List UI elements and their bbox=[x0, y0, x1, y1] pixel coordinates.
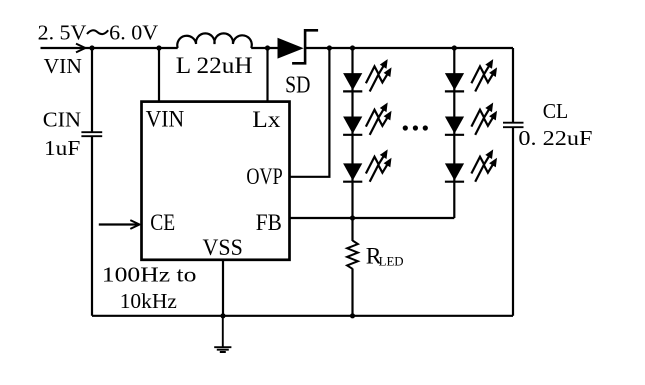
svg-text:2. 5V: 2. 5V bbox=[38, 21, 87, 45]
arrow CE pin bbox=[99, 223, 139, 225]
node dot LED col2 top bbox=[452, 45, 457, 50]
wire LED column 1 bbox=[351, 48, 353, 241]
node dot VIN junction bbox=[89, 45, 94, 50]
wire VSS riser bbox=[222, 259, 224, 316]
wire LED column 2 bbox=[453, 48, 455, 218]
arrowhead input VIN bbox=[76, 44, 85, 53]
ground bbox=[214, 316, 231, 352]
svg-text:FB: FB bbox=[256, 210, 282, 236]
inductor L1 bbox=[177, 33, 251, 48]
node dot Lx riser bbox=[265, 45, 270, 50]
wire riser VIN pin bbox=[158, 48, 160, 102]
svg-text:CL: CL bbox=[543, 99, 569, 123]
svg-text:VSS: VSS bbox=[203, 235, 243, 261]
svg-text:SD: SD bbox=[285, 73, 310, 99]
node dot ground junction bbox=[220, 313, 225, 318]
resistor R_LED bbox=[347, 241, 358, 269]
node dot OVP riser bbox=[327, 45, 332, 50]
wire top to inductor bbox=[92, 47, 178, 49]
LED D2 bbox=[343, 117, 362, 135]
LED D1 flash arrows bbox=[366, 59, 392, 91]
wire diode cathode to right corner bbox=[305, 47, 513, 49]
wire FB to LED columns bbox=[290, 217, 455, 219]
node dot VIN pin riser bbox=[156, 45, 161, 50]
LED D5 bbox=[445, 117, 464, 135]
svg-text:VIN: VIN bbox=[44, 54, 83, 78]
wire left riser upper (to CIN) bbox=[91, 48, 93, 132]
IC U1 box bbox=[142, 102, 290, 260]
svg-text:LED: LED bbox=[379, 255, 404, 269]
svg-text:CIN: CIN bbox=[43, 107, 82, 131]
LED D2 flash arrows bbox=[366, 103, 392, 135]
svg-text:L 22uH: L 22uH bbox=[176, 53, 253, 79]
svg-text:CE: CE bbox=[150, 210, 175, 236]
wire input VIN bbox=[41, 47, 93, 49]
svg-text:VIN: VIN bbox=[146, 107, 185, 133]
LED D4 flash arrows bbox=[471, 59, 497, 91]
LED D3 flash arrows bbox=[366, 149, 392, 181]
LED D6 flash arrows bbox=[471, 149, 497, 181]
wire right rail lower bbox=[512, 127, 514, 316]
wire left riser lower (CIN to bottom) bbox=[91, 136, 93, 315]
wire inductor to diode bbox=[251, 47, 278, 49]
LED D3 bbox=[343, 163, 362, 181]
tilde of range bbox=[87, 30, 108, 34]
capacitor CL plates bbox=[503, 123, 524, 128]
LED D4 bbox=[445, 73, 464, 91]
LED D1 bbox=[343, 73, 362, 91]
diode SD triangle bbox=[278, 38, 304, 59]
wire right rail upper bbox=[512, 48, 514, 123]
svg-text:6. 0V: 6. 0V bbox=[109, 21, 158, 45]
wire column 1 below resistor bbox=[351, 269, 353, 316]
node dot resistor bottom bbox=[350, 313, 355, 318]
svg-text:0. 22uF: 0. 22uF bbox=[518, 126, 592, 150]
svg-text:OVP: OVP bbox=[246, 164, 282, 190]
LED D5 flash arrows bbox=[471, 103, 497, 135]
svg-text:Lx: Lx bbox=[252, 107, 281, 133]
svg-text:1uF: 1uF bbox=[44, 136, 80, 160]
LED D6 bbox=[445, 163, 464, 181]
svg-text:10kHz: 10kHz bbox=[120, 289, 177, 313]
wire OVP to top bbox=[290, 49, 330, 177]
diode SD schottky cathode bar bbox=[292, 30, 318, 63]
svg-text:100Hz to: 100Hz to bbox=[102, 262, 197, 286]
wire bottom rail bbox=[92, 315, 513, 317]
capacitor CIN plates bbox=[81, 132, 102, 136]
node dot LED col1 top bbox=[350, 45, 355, 50]
wire riser Lx pin bbox=[266, 48, 268, 102]
node dot FB junction bbox=[350, 215, 355, 220]
ellipsis dots bbox=[403, 125, 408, 130]
